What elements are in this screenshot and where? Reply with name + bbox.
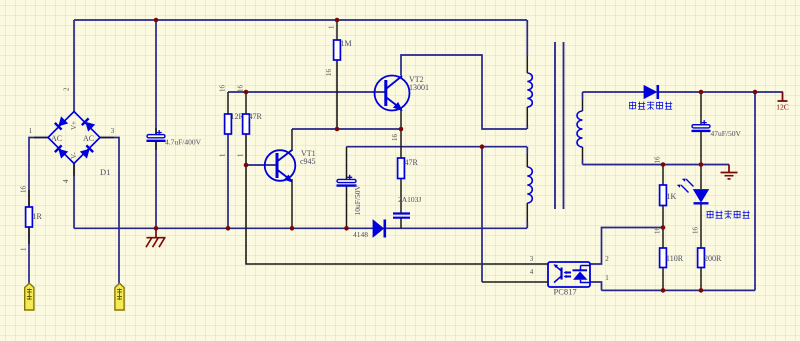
- pin 1R top: [28, 190, 30, 207]
- wire rail to C1 top: [155, 20, 157, 135]
- pin C5 bottom lead: [700, 131, 702, 165]
- junction node B / PC817 pin4 branch: [480, 144, 485, 149]
- svg-text:16: 16: [325, 69, 333, 77]
- pin VT1 collector: [291, 129, 293, 151]
- svg-text:1: 1: [605, 274, 609, 282]
- LED D3: [677, 179, 709, 204]
- svg-text:1R: 1R: [33, 212, 43, 221]
- svg-text:47uF/50V: 47uF/50V: [711, 129, 742, 138]
- junction DC- rail / 12R: [226, 226, 231, 231]
- svg-text:PC817: PC817: [554, 287, 577, 297]
- wire secondary bottom output: [583, 164, 730, 166]
- svg-text:V+: V+: [70, 121, 78, 130]
- capacitor C4 2A103J: [393, 214, 410, 218]
- svg-text:4: 4: [62, 179, 70, 183]
- pin C3 bottom lead: [346, 185, 348, 228]
- wire VT1 collector node: [292, 128, 401, 130]
- bridge rectifier D1 diamond outline: [48, 112, 100, 164]
- transistor VT1: [265, 150, 296, 181]
- resistor 200R: [698, 248, 705, 268]
- wire 1M bottom run: [336, 60, 338, 129]
- svg-text:1: 1: [20, 247, 28, 251]
- ground power GND1: [146, 228, 166, 247]
- pin 1K bottom: [662, 206, 664, 228]
- pin 200R bottom: [700, 268, 702, 291]
- pin LED cathode to 200R: [700, 204, 702, 249]
- junction DC- rail / C1-GND: [154, 226, 159, 231]
- svg-text:1M: 1M: [341, 39, 352, 48]
- svg-text:12C: 12C: [776, 103, 789, 112]
- pin 1K to 110R: [662, 228, 664, 249]
- pin 47R-1 top: [245, 92, 247, 114]
- resistor 47R emitter: [398, 158, 405, 179]
- junction base bus / 47R: [244, 90, 249, 95]
- optocoupler U1 phototransistor: [554, 264, 562, 282]
- svg-text:1: 1: [328, 25, 336, 29]
- svg-text:16: 16: [219, 85, 227, 93]
- wire C1 bottom to DC- rail: [155, 141, 157, 228]
- junction VT1 base / 47R: [244, 163, 249, 168]
- svg-text:47R: 47R: [405, 158, 419, 167]
- junction top rail / 1M: [335, 18, 340, 23]
- wire bottom right rail: [602, 289, 756, 291]
- optocoupler U1 PC817 box: [548, 262, 590, 287]
- pin C3 top lead: [346, 147, 348, 179]
- junction output gnd wire / C5-LED: [699, 162, 704, 167]
- optocoupler U1 light arrows: [564, 271, 572, 278]
- wire bridge pin2 to top rail: [73, 20, 75, 112]
- wire fast diode to 12C port: [658, 91, 783, 93]
- wire VT2 collector to primary W1: [401, 55, 527, 129]
- wire 12R bottom to DC- rail: [227, 134, 229, 228]
- svg-text:c945: c945: [300, 157, 316, 166]
- pin C5 top lead: [700, 92, 702, 125]
- svg-text:1: 1: [29, 127, 33, 135]
- fast recovery diode chinese label 快速二极管: [629, 102, 672, 110]
- svg-text:3: 3: [530, 255, 534, 263]
- wire secondary top to fast diode: [583, 91, 645, 93]
- bridge D1 diode bottom-right: [80, 145, 93, 158]
- pin 12R-1: [227, 92, 229, 114]
- fast recovery diode D2: [644, 85, 658, 99]
- svg-text:200R: 200R: [704, 254, 722, 263]
- wire VT1 base: [246, 164, 278, 166]
- svg-text:2A103J: 2A103J: [398, 195, 421, 204]
- svg-text:16: 16: [692, 227, 700, 235]
- pin LED anode: [700, 165, 702, 190]
- svg-text:4: 4: [530, 268, 534, 276]
- pin 1M top: [336, 20, 338, 40]
- svg-text:13001: 13001: [409, 83, 429, 92]
- wire bridge pin4 down: [73, 164, 75, 229]
- svg-text:16: 16: [391, 134, 399, 142]
- svg-text:V-: V-: [70, 152, 78, 159]
- junction output gnd wire / 1K: [661, 162, 666, 167]
- pin bridge left stub: [34, 137, 48, 139]
- svg-text:16: 16: [654, 227, 662, 235]
- AC terminal X2 neutral: [115, 283, 124, 310]
- wire base bus to VT2: [228, 91, 386, 93]
- wire top DC+ rail: [74, 19, 527, 21]
- transformer primary winding W1: [527, 20, 532, 129]
- capacitor C1 4.7uF/400V: [147, 130, 166, 141]
- svg-text:16: 16: [20, 186, 28, 194]
- power port 12C: [776, 92, 789, 112]
- junction DC- rail / C3: [344, 226, 349, 231]
- wire PC817 pin4 lead: [482, 281, 548, 283]
- bridge D1 diode top-right: [82, 118, 95, 131]
- svg-text:1K: 1K: [667, 192, 677, 201]
- capacitor C5 47uF/50V: [692, 120, 711, 131]
- wire 1R to AC terminal X1: [28, 227, 30, 284]
- pin C1 bottom lead: [155, 141, 157, 150]
- bridge D1 diode bottom-left: [55, 145, 68, 158]
- wire bottom DC- rail: [74, 227, 527, 229]
- pin 47R-2 bottom to C4: [400, 179, 402, 214]
- transformer secondary winding W3: [577, 92, 583, 165]
- pin VT1 emitter: [291, 179, 293, 228]
- svg-text:16: 16: [654, 156, 662, 164]
- pin 110R bottom: [662, 268, 664, 291]
- optocoupler U1 internal LED: [573, 266, 591, 283]
- pin C4 bottom: [400, 219, 402, 229]
- resistor 47R base: [243, 114, 250, 134]
- resistor 1R: [26, 207, 33, 227]
- junction top rail / C1: [154, 18, 159, 23]
- pin VT2 emitter to 47R-2: [400, 107, 402, 158]
- resistor 12R: [225, 114, 232, 134]
- wire node B to primary W2 top: [347, 146, 528, 148]
- svg-text:47R: 47R: [249, 112, 263, 121]
- svg-text:AC: AC: [83, 134, 94, 143]
- svg-text:AC: AC: [51, 134, 62, 143]
- wire bridge pin3 to AC terminal X2: [100, 138, 119, 285]
- wire node B to PC817 pin4: [481, 147, 483, 282]
- svg-text:4.7uF/400V: 4.7uF/400V: [165, 138, 202, 147]
- pin 1K top: [662, 165, 664, 186]
- capacitor C3 10uF/50V: [337, 175, 357, 186]
- junction divider node / 1K-110R: [661, 225, 666, 230]
- pin 1R bottom: [28, 227, 30, 244]
- wire PC817 pin2 to divider node: [590, 228, 663, 265]
- transistor VT2: [375, 76, 410, 111]
- svg-text:1: 1: [219, 153, 227, 157]
- pin bridge bottom stub: [73, 164, 75, 177]
- transformer T1 core: [555, 42, 564, 209]
- resistor 1M: [334, 40, 341, 60]
- junction bottom right rail / 110R: [661, 288, 666, 293]
- svg-text:4148: 4148: [353, 230, 368, 239]
- earth ground GND2: [721, 165, 738, 179]
- junction DC- rail / VT1 emitter: [290, 226, 295, 231]
- transistor VT2 emitter arrowhead: [394, 103, 402, 110]
- diode VD 4148: [373, 220, 385, 238]
- wire 47R bottom / node to PC817 pin3: [246, 134, 548, 264]
- wire PC817 pin1 to bottom rail: [590, 282, 602, 290]
- junction output rail / right return: [753, 90, 758, 95]
- LED chinese label 发光二极管: [707, 211, 750, 219]
- svg-text:2: 2: [605, 255, 609, 263]
- transformer primary winding W2: [527, 147, 532, 229]
- transistor VT1 emitter arrowhead: [285, 176, 292, 182]
- resistor 110R: [660, 248, 667, 268]
- pin C1 top lead: [155, 128, 157, 135]
- svg-text:3: 3: [111, 127, 115, 135]
- resistor 1K: [660, 185, 667, 206]
- junction node A / 1M: [335, 127, 340, 132]
- svg-text:2: 2: [63, 87, 71, 91]
- junction node A / VT2 emitter: [399, 127, 404, 132]
- junction output rail / C5 top: [699, 90, 704, 95]
- wire right vertical return: [754, 92, 756, 290]
- AC terminal X1 live: [25, 283, 34, 310]
- pin bridge right stub: [100, 137, 114, 139]
- wire bridge pin1 to fuse R 1R: [29, 138, 48, 208]
- svg-text:D1: D1: [100, 167, 110, 177]
- svg-text:10uF/50V: 10uF/50V: [353, 184, 362, 215]
- svg-text:110R: 110R: [666, 254, 684, 263]
- svg-text:16: 16: [237, 85, 245, 93]
- svg-text:1: 1: [237, 153, 245, 157]
- junction bottom right rail / 200R: [699, 288, 704, 293]
- bridge D1 diode top-left: [55, 117, 68, 130]
